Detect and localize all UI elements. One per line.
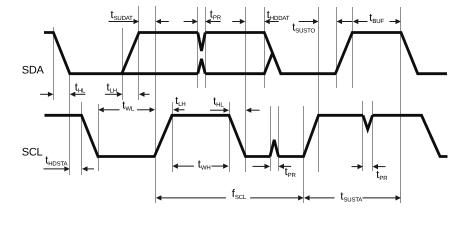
dimension tPR SCL1 [253, 164, 292, 169]
svg-text:tPR: tPR [285, 166, 297, 179]
dimension fSCL [156, 195, 304, 200]
wire SCL low rail to rise2 [279, 115, 364, 156]
dimension tPR SCL2 [352, 164, 386, 169]
reference line SCL rise2 start x=304 [303, 106, 305, 203]
dimension tSUDAT [109, 19, 169, 24]
wire SDA start high segment and START fall [44, 33, 122, 74]
reference line SDA rise1 start x=122 [122, 28, 124, 100]
reference line SDA fall2 start x=264 [264, 7, 266, 88]
wire SDA glitch notch from high (tPR) [198, 33, 205, 52]
reference line SCL fall1 end x=98 [98, 104, 100, 171]
dimension tSUSTA [304, 195, 401, 200]
reference line SCL fall1 start x=82 [81, 102, 83, 175]
reference line SDA fall1 end x=70 [69, 70, 71, 175]
reference line SCL rise1 end x=172 [172, 102, 174, 172]
reference line SDA fall1 start x=53 [53, 27, 55, 100]
wire SDA glitch notch from low (tPR) [198, 59, 205, 74]
wire SCL rise1 and high pulse [154, 115, 270, 156]
svg-text:tBUF: tBUF [369, 12, 384, 25]
dimension tSUSTO [299, 19, 352, 24]
wire SCL final high and fall [373, 115, 448, 156]
svg-text:tLH: tLH [107, 82, 117, 95]
dimension tLH 2 (SCL rise) [173, 107, 179, 112]
wire SDA rise1 (data change) [122, 33, 198, 74]
svg-text:tSUSTA: tSUSTA [340, 190, 362, 203]
reference line SCL fall2 start x=229 [229, 102, 231, 172]
svg-text:tSUDAT: tSUDAT [111, 9, 134, 22]
dimension tHL 1 [40, 92, 85, 97]
reference line SDA glitch right x=205 [205, 7, 207, 88]
reference line SDA fall3 start x=401 [400, 7, 402, 203]
dimension tPR SDA [184, 19, 221, 24]
svg-text:tHL: tHL [75, 82, 86, 95]
svg-text:tHL: tHL [213, 95, 224, 108]
dimension tHDSTA [44, 166, 95, 171]
dimension tLH 1 [105, 92, 150, 97]
svg-text:tWL: tWL [122, 100, 135, 113]
wire SDA high rail to fall2 [205, 33, 336, 74]
reference line SCL glitch1 right x=278 [278, 106, 280, 171]
reference line SDA glitch left x=198 [197, 7, 199, 88]
dimension tHL 2 [210, 108, 260, 113]
reference line SDA rise1 end x=139 [138, 6, 140, 100]
svg-text:tPR: tPR [376, 169, 388, 182]
wire SCL glitch notch 2 (tPR) [363, 115, 373, 129]
wire SCL glitch spike 1 (tPR) [270, 140, 279, 157]
svg-text:SCL: SCL [22, 147, 43, 159]
svg-text:tHDDAT: tHDDAT [267, 9, 290, 22]
svg-text:SDA: SDA [22, 64, 45, 76]
dimension tWH [172, 164, 228, 169]
reference line SDA rise2 start x=336 [336, 7, 338, 88]
svg-text:tHDSTA: tHDSTA [45, 154, 67, 167]
svg-text:tWH: tWH [198, 158, 211, 171]
svg-text:tLH: tLH [175, 95, 185, 108]
dimension tHDDAT [232, 19, 278, 24]
reference line SCL glitch1 left x=270 [270, 106, 272, 171]
svg-text:tSUSTO: tSUSTO [292, 22, 315, 35]
reference line SCL glitch2 left x=363 [362, 101, 364, 171]
svg-text:tPR: tPR [210, 8, 222, 21]
reference line SCL fall2 end x=245 [245, 7, 247, 172]
svg-text:fSCL: fSCL [232, 188, 247, 201]
dimension tWL [98, 107, 155, 112]
reference line SCL glitch2 right x=372 [372, 101, 374, 171]
reference line SCL rise2 end x=318 [318, 7, 320, 172]
wire SDA low rail continues under data region [122, 72, 197, 75]
reference line SDA rise2 end x=352 [352, 7, 354, 88]
wire SCL first high segment and fall1 [45, 115, 156, 156]
wire SDA low rail merging into fall2 [205, 53, 272, 73]
wire SDA STOP rise and final fall [335, 33, 447, 74]
reference line SCL rise1 start x=155 [155, 6, 157, 203]
dimension tBUF [353, 19, 401, 24]
